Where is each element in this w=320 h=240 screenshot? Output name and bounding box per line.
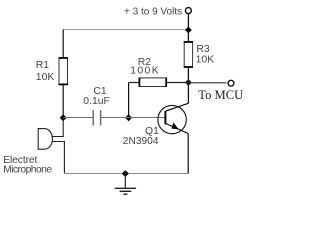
- wire top supply rail: [63, 29, 188, 31]
- svg-text:10K: 10K: [196, 55, 215, 66]
- wire R2 left lead: [129, 82, 139, 84]
- transistor Q1 base bar: [164, 111, 166, 124]
- wire cap right to base: [101, 117, 165, 119]
- resistor R2: [139, 78, 166, 87]
- capacitor C1: [93, 110, 100, 125]
- resistor R1: [59, 58, 68, 85]
- transistor Q1 emitter arrow: [172, 122, 179, 129]
- svg-text:To MCU: To MCU: [198, 88, 243, 102]
- transistor Q1 emitter diagonal: [166, 124, 188, 134]
- wire bottom rail: [64, 173, 188, 175]
- svg-text:100K: 100K: [130, 66, 160, 77]
- wire supply terminal drop: [187, 14, 189, 31]
- svg-text:0.1uF: 0.1uF: [83, 96, 110, 107]
- wire R2 drop to base: [128, 83, 130, 118]
- ground: [115, 174, 136, 195]
- svg-text:+ 3 to 9 Volts: + 3 to 9 Volts: [124, 6, 182, 17]
- node mic/cap junction: [60, 114, 67, 121]
- transistor Q1 collector diagonal: [166, 103, 189, 111]
- node collector junction: [185, 79, 192, 86]
- svg-text:Microphone: Microphone: [3, 165, 52, 176]
- electret microphone: [38, 118, 64, 174]
- node supply junction: [185, 27, 192, 34]
- svg-text:R1: R1: [36, 60, 50, 71]
- supply terminal: [185, 8, 191, 14]
- wire R3 bottom lead: [187, 67, 189, 82]
- node ground junction: [122, 170, 129, 177]
- svg-text:2N3904: 2N3904: [123, 136, 159, 147]
- To MCU terminal: [228, 80, 234, 86]
- transistor Q1 circle: [158, 105, 186, 133]
- svg-text:10K: 10K: [36, 72, 55, 83]
- wire cap left: [63, 117, 93, 119]
- node base junction: [125, 114, 132, 121]
- wire R1 top lead: [62, 30, 64, 59]
- wire R3 top lead: [187, 30, 189, 42]
- wire R2 right lead: [166, 82, 188, 84]
- wire R1 bottom lead: [62, 85, 64, 118]
- wire collector vertical: [187, 83, 189, 104]
- wire emitter vertical: [187, 134, 189, 174]
- resistor R3: [184, 42, 192, 67]
- wire to MCU: [188, 82, 226, 84]
- svg-text:R3: R3: [196, 44, 210, 55]
